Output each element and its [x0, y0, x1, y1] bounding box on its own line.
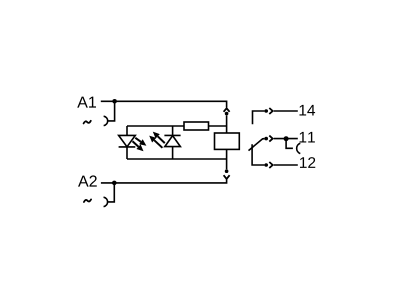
- relay lever (common contact): [249, 139, 265, 151]
- LED D1 emission arrow 2: [133, 141, 144, 151]
- wire resistor to coil feed: [209, 125, 227, 127]
- diode D2 triangle (pointing up): [165, 136, 181, 147]
- contact 12 fixed contact wire: [252, 144, 264, 165]
- relay coil K1: [215, 133, 240, 149]
- wire coil bottom down: [226, 149, 228, 169]
- wire top rail from LED branch to resistor: [127, 125, 184, 127]
- plug-in contact dot (coil bottom): [225, 169, 229, 173]
- node A2 junction dot: [112, 181, 117, 186]
- wire LED branch lower: [126, 147, 128, 159]
- node A1 junction dot: [112, 99, 117, 104]
- label ~ (AC at A1): [84, 121, 91, 124]
- wire A1 riser to clamp: [108, 101, 115, 121]
- label 12: [300, 157, 315, 168]
- wire LED branch upper: [126, 126, 128, 135]
- wire middle branch lower: [172, 147, 174, 159]
- wire bottom rail: [127, 158, 227, 160]
- plug-in contact chevron (14): [269, 108, 272, 114]
- plug-in contact chevron (coil top): [224, 108, 230, 112]
- LED D1 cathode bar: [119, 146, 136, 148]
- LED D1 emission arrow 1: [135, 138, 146, 146]
- contact 14 fixed contact wire: [253, 111, 265, 124]
- LED D2 emission arrow 1: [153, 132, 165, 144]
- label A1: [77, 97, 96, 108]
- label 14: [299, 105, 315, 116]
- wire A2 riser to clamp: [108, 183, 115, 202]
- resistor R1: [184, 122, 209, 130]
- wire to terminal 12: [274, 164, 298, 166]
- wire to terminal 14: [274, 110, 298, 112]
- plug-in contact dot (11): [264, 137, 268, 141]
- node 11 junction dot: [284, 136, 289, 141]
- LED D1 triangle (pointing down): [119, 135, 136, 146]
- terminal clamp 11 (cage clamp arc): [297, 143, 301, 153]
- terminal clamp A1 (cage clamp arc): [104, 116, 108, 125]
- label 11: [300, 132, 315, 143]
- wire A1 horizontal to coil feed corner: [101, 101, 227, 107]
- wire middle branch upper: [172, 126, 174, 135]
- plug-in contact chevron (coil bottom): [224, 175, 230, 179]
- plug-in contact dot (coil top): [225, 112, 229, 116]
- plug-in contact dot (12): [264, 163, 268, 167]
- plug-in contact dot (14): [264, 109, 268, 113]
- label A2: [78, 175, 97, 186]
- terminal clamp A2 (cage clamp arc): [104, 197, 108, 206]
- plug-in contact chevron (12): [269, 162, 272, 168]
- label ~ (AC at A2): [84, 199, 91, 202]
- wire to A2 rail: [101, 179, 227, 183]
- diode D2 cathode bar: [164, 134, 180, 136]
- plug-in contact chevron (11): [269, 136, 272, 142]
- wire to terminal 11: [274, 138, 298, 140]
- LED D2 emission arrow 2: [149, 136, 162, 148]
- wire coil feed down: [226, 116, 228, 134]
- wire 11 clamp stub: [286, 141, 293, 149]
